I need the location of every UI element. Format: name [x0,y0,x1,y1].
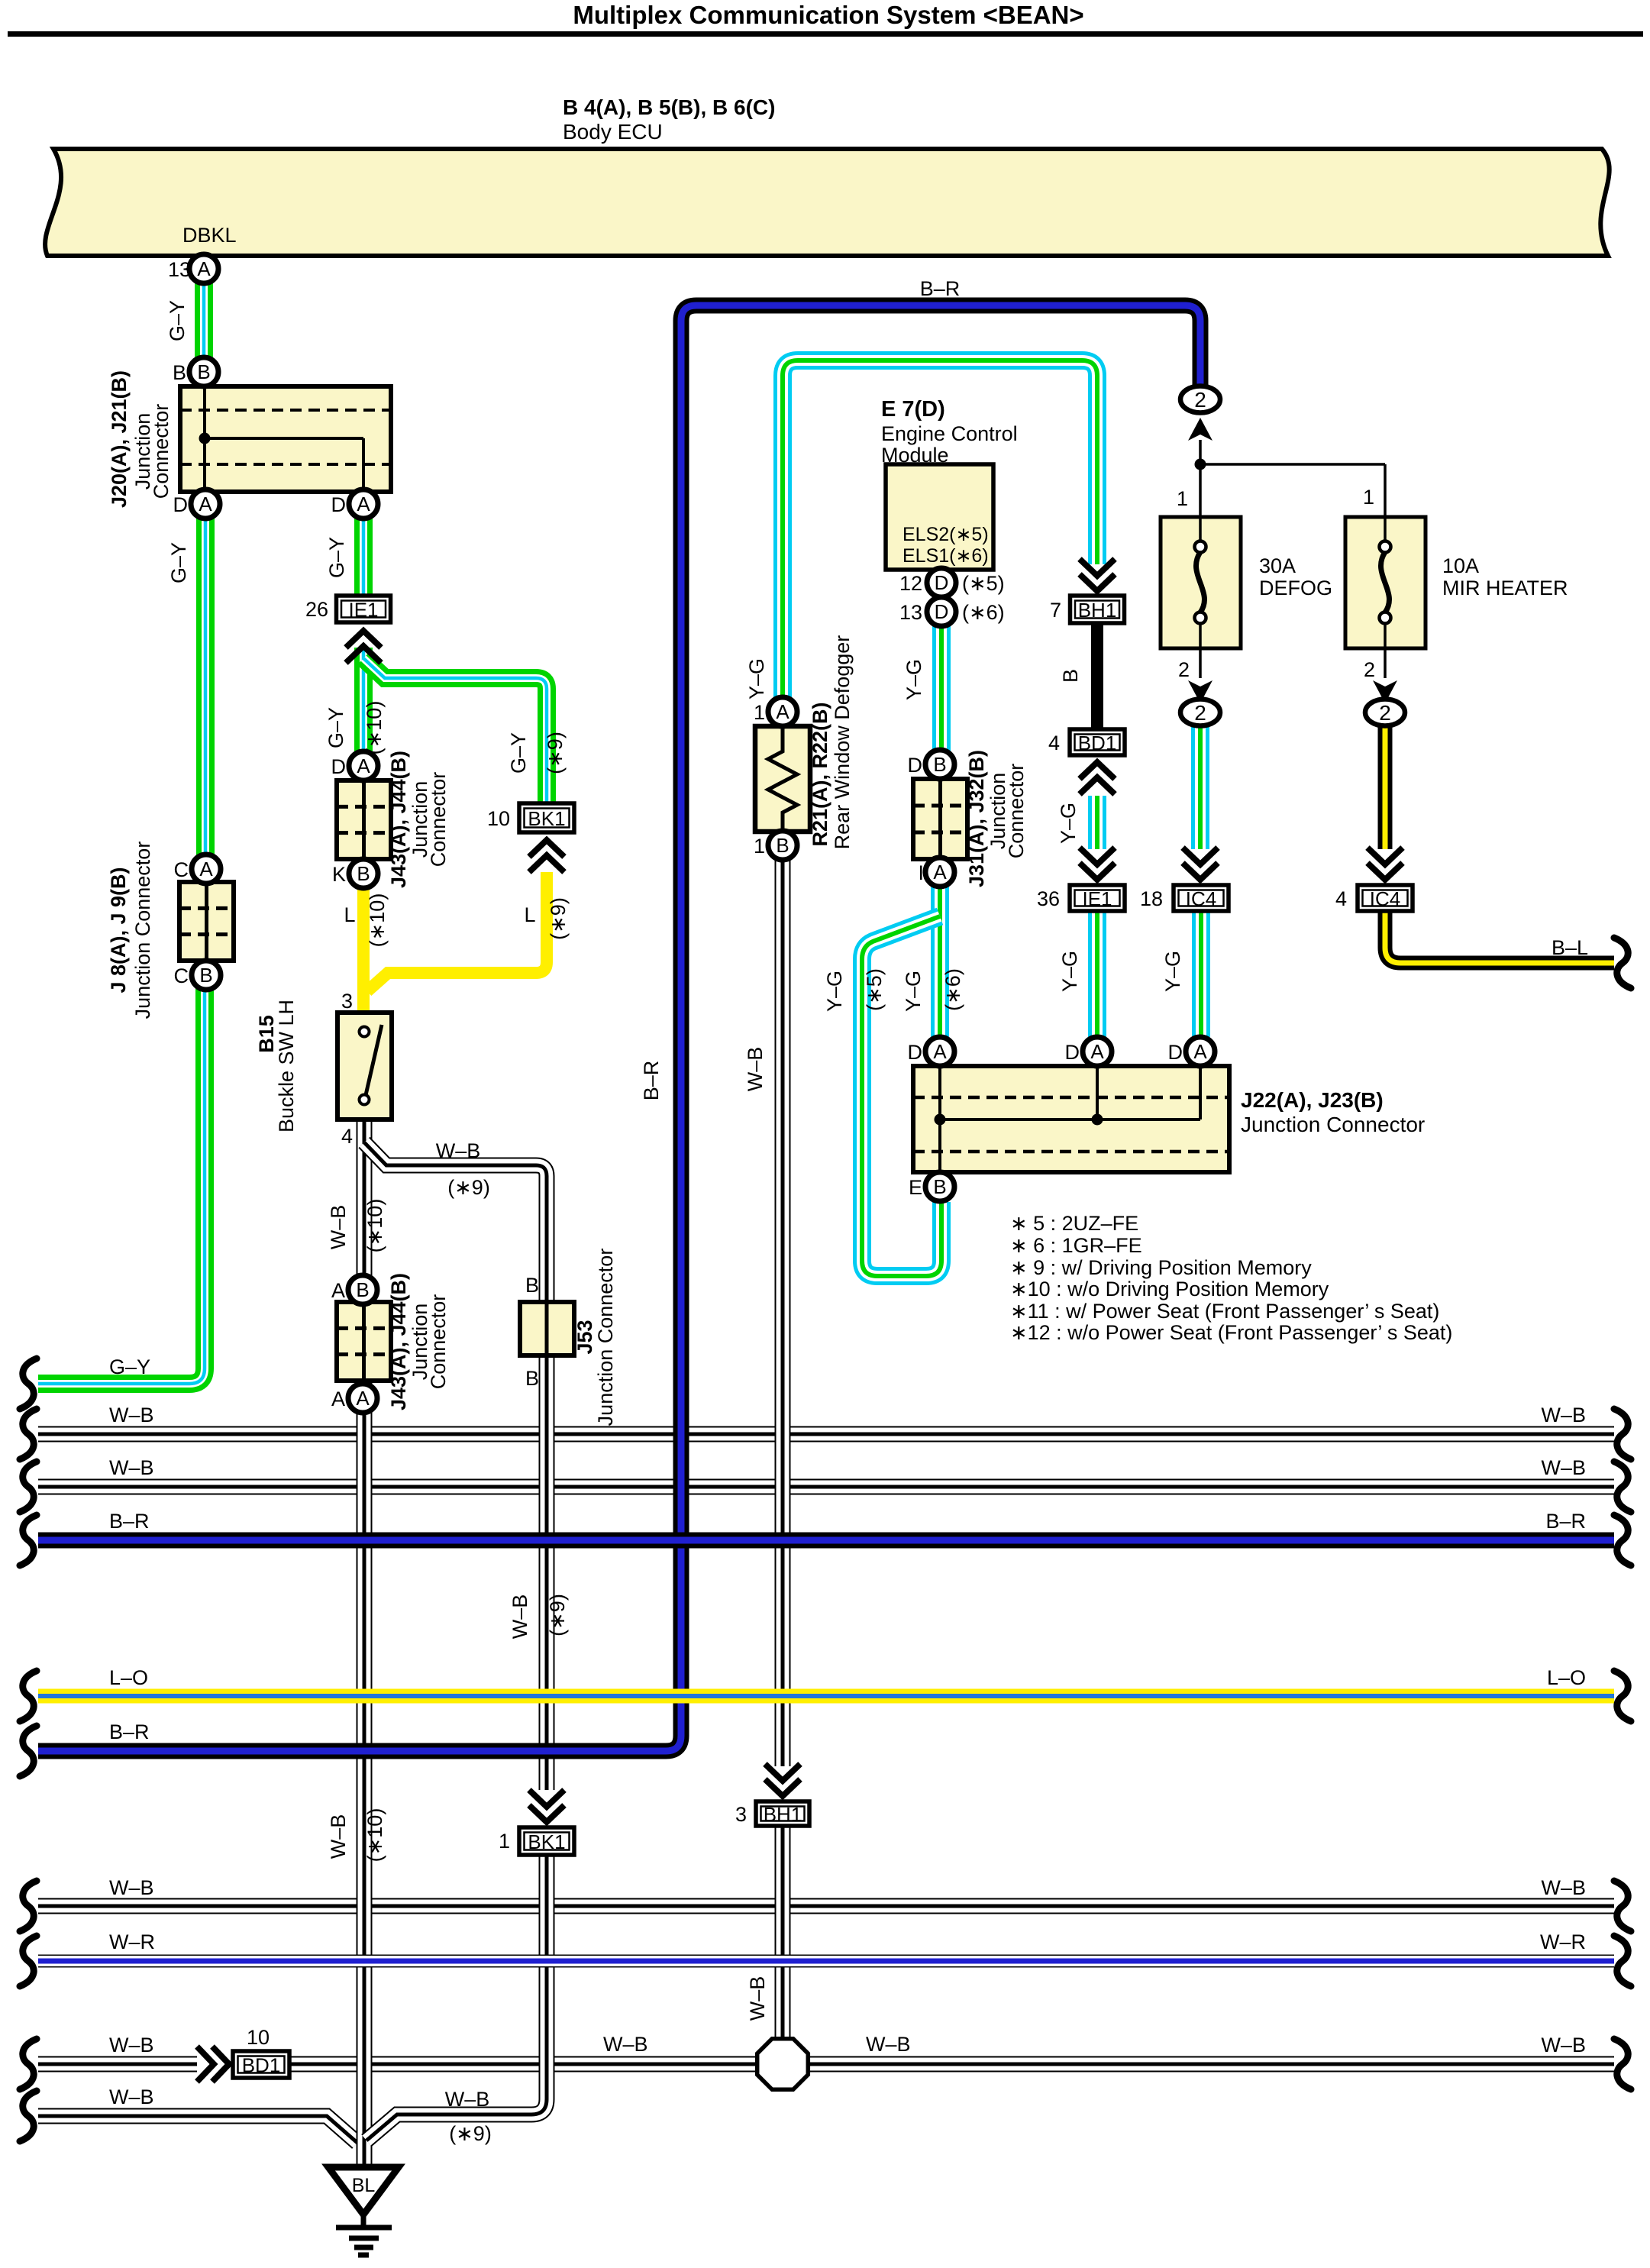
svg-text:W–B: W–B [746,1976,769,2021]
svg-text:B–R: B–R [109,1720,150,1743]
svg-text:10A: 10A [1442,554,1479,577]
svg-text:E 7(D): E 7(D) [881,397,945,422]
svg-text:B–R: B–R [1545,1510,1586,1533]
svg-text:BK1: BK1 [528,1830,565,1853]
svg-text:B–R: B–R [920,277,961,300]
svg-text:1: 1 [499,1830,510,1853]
svg-text:D: D [331,493,347,516]
svg-text:Y–G: Y–G [902,659,925,700]
svg-text:2: 2 [1379,701,1391,725]
svg-text:L: L [344,903,355,926]
svg-text:R21(A), R22(B): R21(A), R22(B) [809,702,831,846]
svg-text:1: 1 [754,701,765,724]
svg-text:A: A [197,257,211,280]
svg-text:I: I [918,861,924,884]
svg-text:W–B: W–B [109,1404,154,1426]
svg-text:G–Y: G–Y [325,537,348,578]
svg-text:1: 1 [1177,487,1188,510]
svg-text:DBKL: DBKL [182,224,237,247]
svg-text:W–B: W–B [1541,1404,1586,1426]
svg-text:B: B [197,360,210,383]
svg-text:∗12 : w/o Power Seat (Front Pa: ∗12 : w/o Power Seat (Front Passenger’ s… [1010,1321,1452,1344]
svg-text:J43(A), J44(B): J43(A), J44(B) [387,751,410,888]
svg-text:1: 1 [1363,486,1374,509]
svg-text:G–Y: G–Y [109,1355,150,1378]
svg-text:C: C [174,858,189,881]
svg-text:13: 13 [899,601,922,624]
svg-text:(∗5): (∗5) [962,572,1005,595]
svg-text:G–Y: G–Y [166,300,189,341]
svg-text:BD1: BD1 [242,2054,281,2077]
svg-text:W–B: W–B [866,2033,911,2056]
svg-text:∗10 : w/o Driving Position Mem: ∗10 : w/o Driving Position Memory [1010,1278,1329,1300]
svg-text:Y–G: Y–G [745,658,768,699]
svg-text:W–B: W–B [1541,1876,1586,1899]
svg-text:B–R: B–R [109,1510,150,1533]
svg-text:G–Y: G–Y [325,707,347,748]
svg-text:G–Y: G–Y [507,732,530,774]
svg-text:ELS1(∗6): ELS1(∗6) [902,545,989,567]
svg-text:Y–G: Y–G [1058,951,1081,992]
svg-text:B: B [199,964,212,987]
svg-text:D: D [935,600,949,623]
svg-text:(∗10): (∗10) [363,1808,386,1863]
svg-text:D: D [908,1041,923,1064]
svg-text:BD1: BD1 [1078,732,1117,754]
svg-text:W–B: W–B [1541,1456,1586,1479]
svg-text:BL: BL [352,2175,376,2196]
svg-text:J53: J53 [573,1320,596,1354]
svg-text:BK1: BK1 [528,807,565,830]
svg-text:A: A [933,1040,947,1063]
svg-text:W–B: W–B [109,2034,154,2056]
svg-text:(∗5): (∗5) [863,968,886,1011]
svg-text:B: B [776,834,789,857]
svg-text:2: 2 [1194,388,1206,412]
svg-text:B: B [173,361,186,384]
svg-text:30A: 30A [1259,554,1296,577]
svg-text:Y–G: Y–G [1057,803,1080,844]
svg-text:ELS2(∗5): ELS2(∗5) [902,524,989,545]
svg-text:J22(A), J23(B): J22(A), J23(B) [1241,1088,1384,1112]
svg-text:Body ECU: Body ECU [563,120,663,144]
svg-text:(∗10): (∗10) [363,701,386,755]
svg-text:Buckle SW LH: Buckle SW LH [275,1000,298,1132]
svg-text:B: B [357,862,370,885]
svg-text:W–B: W–B [509,1594,531,1640]
svg-text:W–B: W–B [327,1814,350,1859]
svg-text:B 4(A), B 5(B), B 6(C): B 4(A), B 5(B), B 6(C) [563,95,775,119]
svg-text:BH1: BH1 [1078,599,1117,622]
svg-text:Junction Connector: Junction Connector [1241,1113,1425,1136]
svg-text:B: B [933,1175,946,1198]
svg-text:Connector: Connector [1005,764,1028,859]
svg-text:4: 4 [1048,732,1060,754]
svg-text:L–O: L–O [109,1666,148,1689]
svg-text:G–Y: G–Y [167,542,190,583]
svg-text:A: A [357,493,370,515]
svg-text:∗ 9 : w/ Driving Position Memo: ∗ 9 : w/ Driving Position Memory [1010,1256,1312,1279]
svg-text:D: D [1065,1041,1080,1064]
svg-text:A: A [199,858,213,880]
svg-text:B–L: B–L [1552,936,1588,959]
svg-text:A: A [933,861,947,884]
svg-text:B: B [525,1274,539,1297]
svg-text:W–B: W–B [109,2085,154,2108]
svg-text:1: 1 [754,835,765,858]
svg-text:W–B: W–B [327,1205,350,1250]
svg-text:E: E [909,1176,922,1199]
svg-text:7: 7 [1050,599,1061,622]
svg-text:Y–G: Y–G [1161,951,1184,992]
svg-text:Junction Connector: Junction Connector [594,1249,617,1426]
svg-text:13: 13 [168,258,191,281]
svg-text:Module: Module [881,444,949,467]
svg-text:(∗6): (∗6) [941,968,964,1011]
svg-text:A: A [357,754,370,777]
svg-text:W–B: W–B [744,1047,767,1092]
svg-text:J43(A), J44(B): J43(A), J44(B) [387,1273,410,1410]
svg-text:J 8(A), J 9(B): J 8(A), J 9(B) [107,867,130,993]
svg-text:W–B: W–B [109,1876,154,1899]
svg-text:4: 4 [1335,887,1347,910]
svg-text:IC4: IC4 [1186,887,1216,910]
svg-text:W–B: W–B [445,2088,490,2111]
svg-text:IC4: IC4 [1370,887,1400,910]
svg-text:Y–G: Y–G [902,971,925,1012]
svg-text:A: A [776,700,789,723]
svg-text:Connector: Connector [427,1294,450,1390]
svg-text:∗11 : w/ Power Seat (Front Pas: ∗11 : w/ Power Seat (Front Passenger’ s … [1010,1300,1439,1323]
svg-text:Junction Connector: Junction Connector [131,842,154,1019]
svg-text:B: B [1059,669,1082,683]
svg-text:12: 12 [899,572,922,595]
svg-text:IE1: IE1 [348,599,378,622]
svg-text:(∗9): (∗9) [447,1176,490,1199]
svg-text:(∗9): (∗9) [546,1594,569,1636]
svg-text:L–O: L–O [1547,1666,1586,1689]
svg-text:3: 3 [341,990,353,1013]
svg-text:2: 2 [1364,658,1375,681]
svg-text:DEFOG: DEFOG [1259,577,1332,599]
svg-text:10: 10 [247,2026,270,2049]
svg-text:26: 26 [305,598,328,621]
svg-text:B: B [356,1278,369,1301]
svg-text:D: D [1168,1041,1183,1064]
svg-text:B: B [525,1367,539,1390]
svg-text:IE1: IE1 [1082,887,1112,910]
svg-text:2: 2 [1194,701,1206,725]
svg-text:D: D [173,493,189,516]
svg-text:MIR HEATER: MIR HEATER [1442,577,1568,599]
svg-text:A: A [1193,1040,1207,1063]
svg-text:W–B: W–B [603,2033,648,2056]
svg-text:(∗9): (∗9) [547,897,570,940]
svg-text:L: L [524,903,535,926]
svg-text:W–R: W–R [109,1930,155,1953]
svg-text:18: 18 [1140,887,1163,910]
svg-text:A: A [1090,1040,1104,1063]
svg-text:A: A [356,1387,370,1410]
svg-text:Engine Control: Engine Control [881,422,1018,445]
svg-text:A: A [331,1388,345,1410]
svg-text:A: A [331,1279,345,1302]
svg-text:36: 36 [1037,887,1060,910]
svg-text:D: D [935,571,949,594]
svg-text:(∗10): (∗10) [363,1199,386,1253]
svg-text:Connector: Connector [427,772,450,867]
svg-text:10: 10 [487,807,510,830]
svg-text:(∗9): (∗9) [544,732,567,774]
svg-text:Multiplex Communication System: Multiplex Communication System <BEAN> [573,1,1083,29]
svg-text:Y–G: Y–G [823,971,846,1012]
svg-text:W–B: W–B [1541,2034,1586,2056]
svg-text:2: 2 [1178,658,1190,681]
svg-text:W–R: W–R [1540,1930,1586,1953]
svg-text:4: 4 [341,1125,353,1148]
svg-text:A: A [199,493,212,515]
svg-text:W–B: W–B [436,1139,481,1162]
svg-text:∗ 6 : 1GR–FE: ∗ 6 : 1GR–FE [1010,1234,1142,1257]
svg-text:K: K [332,863,346,886]
svg-text:Rear Window Defogger: Rear Window Defogger [831,635,854,850]
svg-text:(∗6): (∗6) [962,601,1005,624]
svg-text:(∗9): (∗9) [449,2122,492,2145]
svg-text:B–R: B–R [640,1061,663,1101]
svg-text:∗ 5 : 2UZ–FE: ∗ 5 : 2UZ–FE [1010,1212,1138,1235]
svg-text:3: 3 [735,1803,747,1826]
svg-text:D: D [908,754,923,777]
svg-text:(∗10): (∗10) [366,893,389,948]
svg-text:BH1: BH1 [764,1803,802,1826]
svg-text:W–B: W–B [109,1456,154,1479]
svg-text:J20(A), J21(B): J20(A), J21(B) [108,370,131,508]
svg-text:J31(A), J32(B): J31(A), J32(B) [965,750,988,887]
svg-text:D: D [331,755,347,778]
svg-text:Connector: Connector [150,404,173,499]
svg-text:B: B [933,753,946,776]
svg-text:C: C [174,964,189,987]
